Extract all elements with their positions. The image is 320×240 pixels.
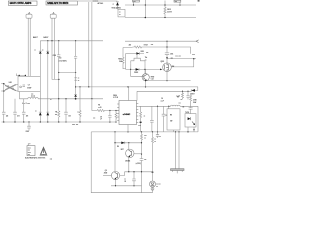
wire vertical pair left: [88, 2, 90, 87]
svg-text:L801: L801: [9, 82, 12, 84]
svg-text:xx: xx: [145, 59, 147, 61]
svg-text:APX-40: APX-40: [98, 2, 104, 5]
diode D804: [46, 41, 49, 51]
node y172 d: [133, 171, 134, 172]
wire LS1 right lead: [53, 18, 55, 79]
wire source: [166, 72, 168, 81]
svg-text:(uF,25V): (uF,25V): [136, 163, 142, 165]
capacitor C805: [57, 41, 60, 111]
node y132 a: [114, 131, 115, 132]
line filter L801: [5, 84, 17, 91]
node vcc b: [187, 91, 188, 92]
svg-text:xx: xx: [144, 116, 146, 118]
optocoupler IC802: [185, 114, 196, 127]
wire D803 to box: [39, 54, 41, 77]
svg-text:2SK: 2SK: [172, 66, 175, 68]
svg-text:xx: xx: [159, 136, 161, 138]
node IC gnd: [127, 131, 128, 132]
svg-text:xx: xx: [78, 80, 80, 82]
svg-text:KV 47: KV 47: [144, 44, 148, 47]
svg-text:xxx_xxx: xxx_xxx: [175, 56, 181, 58]
svg-text:uF: uF: [100, 119, 102, 121]
title box 1: [8, 1, 37, 5]
rail vcc top: [125, 4, 196, 6]
node R820 a: [109, 110, 110, 111]
wire snubber top: [126, 53, 137, 55]
zener ZD807: [190, 89, 192, 92]
svg-text:R809: R809: [151, 76, 155, 78]
svg-text:xx): xx): [50, 159, 53, 161]
wire LS2 right lead: [29, 18, 31, 76]
AC input terminal upper: [1, 83, 4, 85]
svg-text:R8: R8: [170, 114, 172, 116]
warning label box: [27, 146, 35, 156]
top right rail: [78, 0, 118, 2]
connector P802 body: [171, 169, 185, 171]
capacitor C802 column: [13, 99, 17, 122]
wire box to dc rail: [20, 92, 28, 99]
capacitor C821 column: [162, 106, 166, 132]
node y122 d: [28, 121, 29, 122]
wire LS1 left lead: [52, 18, 59, 79]
node top d: [164, 4, 165, 5]
svg-text:+xx: +xx: [144, 159, 147, 161]
secondary rail y106: [139, 105, 171, 107]
thermistor marks col 75.6: [74, 78, 77, 80]
svg-text:C8: C8: [124, 181, 126, 183]
svg-text:xxx: xxx: [192, 54, 195, 56]
svg-text:SAME APX TO 35073: SAME APX TO 35073: [47, 2, 69, 5]
lamp socket LS2: [26, 14, 32, 18]
resistor R824: [190, 95, 192, 102]
small label box top: [133, 0, 140, 2]
svg-text:xxx: xxx: [146, 52, 149, 54]
node y106 a: [157, 106, 158, 107]
dc rail y99: [38, 98, 103, 100]
wire top rail left: [40, 40, 103, 42]
svg-text:5W: 5W: [170, 120, 173, 122]
wire filter to box upper: [17, 83, 19, 85]
svg-text:2N39: 2N39: [104, 173, 108, 175]
stub label box: [133, 2, 135, 5]
capacitor C811 column: [165, 41, 169, 63]
svg-text:xx: xx: [154, 138, 156, 140]
svg-text:222: 222: [6, 116, 9, 118]
svg-text:xxxx: xxxx: [28, 152, 31, 154]
node y99 b: [75, 98, 77, 100]
resistor R808 column: [182, 91, 184, 99]
wire rail 72: [59, 72, 76, 74]
capacitor C826: [132, 172, 136, 186]
svg-text:225: 225: [129, 45, 132, 47]
node C804 top: [65, 98, 66, 99]
svg-text:R8: R8: [55, 112, 57, 114]
node y99 c: [91, 98, 92, 99]
svg-text:xxx: xxx: [175, 1, 178, 3]
svg-text:xx W: xx W: [98, 107, 102, 109]
svg-text:xxuF: xxuF: [161, 100, 164, 102]
rail y41 right: [125, 40, 196, 42]
resistor R810 column: [122, 48, 133, 69]
node y142 a: [114, 142, 115, 143]
node y186 b: [133, 185, 134, 186]
capacitor C804 column: [64, 99, 68, 122]
diode D806: [74, 93, 77, 95]
resistor R804 in column: [58, 111, 60, 122]
connector P802 wire right: [178, 132, 180, 169]
wire opto pin1: [187, 127, 189, 132]
node gate a: [130, 69, 131, 70]
wire base feed Q802: [131, 69, 144, 76]
wire vcc to IC top: [128, 87, 130, 101]
svg-text:+x: +x: [113, 4, 115, 6]
capacitor C809 below rail: [27, 122, 31, 131]
diode D812: [136, 52, 139, 55]
node top a: [133, 4, 134, 5]
svg-text:(.01uF,250V): (.01uF,250V): [59, 60, 68, 62]
capacitor C822 column: [186, 91, 189, 99]
capacitor C801 column: [2, 91, 6, 122]
diode D803: [39, 41, 42, 51]
stub R822 top: [168, 106, 170, 109]
svg-text:C8: C8: [161, 98, 163, 100]
svg-text:4.99K: 4.99K: [193, 98, 197, 101]
node C804 bottom: [65, 121, 66, 122]
node y172 a: [128, 171, 129, 172]
transistor Q805: [111, 171, 119, 179]
rail gnd top: [125, 17, 196, 19]
capacitor C823 above opto: [189, 102, 193, 114]
capacitor C824: [140, 159, 144, 193]
svg-text:xx: xx: [119, 11, 121, 13]
node source rail left: [145, 80, 146, 81]
connector P802 stub: [176, 170, 178, 173]
shunt regulator U803: [150, 181, 156, 187]
ground rail y122: [2, 121, 117, 123]
mosfet Q801: [163, 63, 172, 72]
wire Q802 emitter: [145, 81, 147, 87]
svg-text:xxx: xxx: [28, 150, 30, 152]
node P802 left: [175, 131, 176, 132]
node gate b: [144, 69, 145, 70]
wire source rail: [146, 80, 191, 82]
wire Q804 base: [134, 153, 142, 155]
node snubber dot: [193, 58, 195, 60]
node y87 a: [79, 86, 80, 87]
node x155 bottom: [157, 131, 158, 132]
node y122 h: [79, 121, 80, 122]
svg-text:220 W: 220 W: [167, 12, 172, 14]
rail y47 with resistor R802: [133, 46, 191, 54]
node y132 b: [141, 131, 142, 132]
svg-text:xx: xx: [35, 110, 37, 112]
warning triangle: [40, 147, 47, 155]
wire y106 right: [180, 105, 198, 107]
capacitor C820 column: [150, 106, 154, 132]
diode D820: [121, 142, 125, 145]
node y47 cross: [166, 46, 167, 47]
svg-text:GRAY 2 BTN LAMPS: GRAY 2 BTN LAMPS: [10, 2, 32, 5]
node opto pin2: [193, 129, 194, 130]
svg-text:C809: C809: [26, 131, 30, 133]
connector P802 wire left: [175, 132, 177, 169]
wire snubber loop: [171, 59, 193, 67]
svg-text:BAS17: BAS17: [33, 36, 38, 39]
node y122 a: [3, 121, 4, 122]
svg-text:xxx xx: xxx xx: [156, 184, 160, 186]
jumper above box: [16, 74, 26, 77]
svg-text:T9GA (20MV): T9GA (20MV): [112, 6, 122, 9]
wire U803 bottom: [152, 187, 154, 193]
node y122 e: [40, 121, 41, 122]
svg-text:xx .25: xx .25: [176, 96, 180, 98]
capacitor CX inside box: [23, 85, 26, 86]
node rail dot b: [51, 40, 52, 41]
svg-text:C8: C8: [182, 106, 184, 108]
svg-text:CX: CX: [28, 85, 30, 87]
wire vertical pair right: [91, 2, 93, 99]
title box 2: [46, 1, 78, 5]
lamp socket LS2 contact: [29, 13, 31, 15]
enclosure wire bottom: [91, 132, 152, 193]
svg-text:xx: xx: [78, 77, 80, 79]
node C805 bottom: [58, 72, 59, 73]
IC pins right: [137, 104, 139, 123]
svg-text:xxx: xxx: [151, 44, 154, 46]
wire drain branch: [167, 58, 196, 60]
wire gate rail: [126, 68, 163, 70]
node P802 right: [178, 131, 179, 132]
filter box: [18, 76, 40, 91]
wire Q804 collector: [128, 143, 130, 149]
svg-text:R810: R810: [118, 58, 122, 60]
diode D805 lower: [39, 92, 42, 113]
rail y172: [125, 171, 153, 173]
stub connector top: [179, 2, 181, 5]
node top c: [145, 17, 147, 19]
svg-text:xxxx_xxx: xxxx_xxx: [72, 124, 78, 126]
node y172 b: [141, 171, 142, 172]
IC pins left: [117, 104, 119, 121]
node y99 a: [58, 98, 59, 99]
resistor R805 column: [79, 87, 81, 122]
wire D804 down: [47, 54, 49, 113]
svg-text:xxxxxx: xxxxxx: [93, 1, 99, 3]
node y142 c: [141, 142, 142, 143]
wire top stub x165: [164, 1, 166, 6]
node rail dot a: [47, 40, 48, 41]
wire IC gnd: [127, 125, 129, 132]
diode D807 lower: [46, 111, 49, 113]
wire Q805 emitter: [115, 180, 117, 186]
svg-text:R815: R815: [167, 9, 171, 11]
wire Q802 collector: [145, 69, 147, 73]
lamp socket LS1 contact: [53, 13, 55, 15]
node y132 c: [152, 131, 153, 132]
node y106 b: [168, 106, 169, 107]
resistor R823 column: [141, 132, 143, 159]
node x75 y86: [75, 86, 76, 87]
svg-text:C805: C805: [53, 55, 57, 57]
node top e: [164, 17, 165, 18]
svg-text:C8: C8: [100, 117, 102, 119]
stub R822 bottom: [173, 130, 175, 132]
wire right edge column: [197, 106, 199, 132]
capacitor C803 column: [22, 99, 26, 122]
node jumper a: [19, 75, 20, 76]
svg-text:ZD807: ZD807: [190, 93, 194, 95]
svg-text:xx: xx: [180, 99, 182, 101]
wire base bend Q805: [120, 172, 125, 176]
resistor R820 left of IC: [97, 109, 119, 111]
node rail72 right: [75, 72, 76, 73]
svg-text:xx: xx: [119, 14, 121, 16]
inductor L803: [171, 105, 181, 106]
transistor Q802: [142, 74, 149, 81]
inductor L802: [28, 98, 38, 99]
diode D801: [116, 1, 119, 3]
node y87 d: [127, 86, 128, 87]
wire snubber left: [125, 54, 127, 70]
svg-text:uC494C: uC494C: [123, 113, 131, 116]
svg-text:T8x: T8x: [145, 57, 148, 59]
svg-text:2N3906: 2N3906: [125, 160, 130, 162]
svg-text:xxx: xxx: [55, 114, 58, 116]
polarized cap mark: [140, 122, 142, 123]
svg-text:xx: xx: [50, 99, 52, 101]
node y87 e: [145, 86, 146, 87]
node y41 a: [166, 41, 167, 42]
transistor Q804: [126, 149, 134, 157]
svg-text:xxx: xxx: [138, 125, 140, 127]
IC U801 box: [119, 101, 137, 125]
gate arrow: [160, 69, 162, 71]
svg-text:0.056F: 0.056F: [27, 87, 31, 89]
label box top right: [174, 0, 181, 2]
node y122 g: [58, 121, 59, 122]
svg-text:xx: xx: [34, 49, 36, 51]
svg-text:xxx: xxx: [31, 94, 34, 96]
resistor R817 right of IC: [140, 106, 142, 132]
main rail y87: [76, 86, 198, 88]
node y132 d: [187, 131, 188, 132]
power resistor box R822: [167, 109, 180, 130]
ground rail y132: [91, 131, 198, 133]
resistor R821: [115, 111, 117, 123]
node drain branch: [166, 57, 168, 59]
relay box K801: [118, 9, 125, 17]
svg-text:BRT: BRT: [121, 149, 124, 151]
svg-text:ELECTROSTATIC XXXX XXX: ELECTROSTATIC XXXX XXX: [25, 157, 45, 160]
svg-text:xxx: xxx: [144, 135, 147, 137]
svg-text:0.22: 0.22: [151, 79, 154, 81]
mark rail y41 end: [196, 40, 199, 43]
svg-text:472: 472: [26, 115, 29, 118]
capacitor C806 column: [74, 41, 77, 95]
wire Q804 emitter: [128, 157, 130, 171]
node LS1 junction: [58, 79, 60, 81]
transformer primary T801: [131, 58, 145, 64]
svg-text:xxxx: xxxx: [28, 147, 31, 149]
capacitor below x155: [156, 132, 159, 138]
wire Q805 left stub: [103, 175, 112, 177]
node rail dot c: [58, 40, 59, 41]
wire T801 right down: [144, 64, 146, 74]
svg-text:xx: xx: [154, 141, 156, 143]
wire x107 drop: [115, 132, 142, 172]
node source: [166, 80, 167, 81]
svg-text:xx: xx: [124, 179, 126, 181]
node base Q804: [141, 153, 142, 154]
wire top vertical: [144, 0, 146, 18]
wire T801 left down: [130, 64, 132, 70]
node jumper b: [25, 75, 26, 76]
capacitor C812: [108, 111, 111, 123]
node y172 c: [152, 171, 154, 173]
stub T801 top: [136, 54, 138, 59]
svg-text:ZD813: ZD813: [134, 72, 138, 74]
node top b: [145, 4, 146, 5]
svg-text:472: 472: [17, 115, 20, 118]
wire opto pin2: [193, 127, 195, 132]
wire feed left of IC: [92, 99, 97, 111]
node y87 b: [88, 86, 89, 87]
wire AC vertical: [3, 84, 5, 91]
node top f: [179, 4, 180, 5]
svg-text:103: 103: [59, 58, 62, 60]
svg-text:Q801: Q801: [161, 61, 165, 63]
svg-text:BAS17: BAS17: [44, 36, 49, 39]
wire vcc drop to IC: [136, 91, 138, 100]
svg-text:104: 104: [68, 115, 71, 118]
wire filter to box lower: [17, 90, 19, 92]
svg-text:xx: xx: [42, 49, 44, 51]
svg-text:xx: xx: [144, 138, 146, 140]
svg-text:xxx: xxx: [28, 154, 30, 156]
node rail dot d: [75, 40, 76, 41]
AC input terminal lower: [1, 90, 4, 92]
wire D806 to rail: [75, 97, 77, 99]
node y186 a: [115, 185, 116, 186]
svg-text:0.75 W: 0.75 W: [113, 97, 118, 99]
svg-text:D812: D812: [141, 51, 145, 53]
node y122 f: [47, 121, 48, 122]
node y142 b: [128, 142, 129, 143]
svg-text:R8: R8: [98, 105, 100, 107]
rail y186: [111, 185, 142, 187]
svg-text:R806: R806: [113, 95, 117, 97]
wire LS2 left lead: [27, 18, 29, 76]
zener ZD813: [136, 68, 139, 71]
svg-text:xx: xx: [156, 186, 158, 188]
mark top right corner: [198, 0, 200, 1]
svg-text:xxx: xxx: [179, 103, 181, 105]
node y122 c: [23, 121, 24, 122]
vcc line y91: [137, 90, 191, 92]
lamp socket LS1: [50, 14, 56, 18]
svg-text:Q8: Q8: [105, 170, 107, 172]
node vcc a: [182, 91, 183, 92]
wire column x155: [157, 106, 159, 132]
warning label stub: [28, 144, 30, 146]
svg-text:R8: R8: [117, 146, 119, 148]
resistor R826 column: [152, 132, 154, 181]
svg-text:0 xx / 1 xxx: 0 xx / 1 xxx: [22, 103, 30, 105]
resistor R815: [164, 5, 166, 18]
node R820 b: [115, 110, 116, 111]
svg-text:xxx: xxx: [93, 118, 95, 120]
svg-text:C811: C811: [170, 54, 173, 56]
